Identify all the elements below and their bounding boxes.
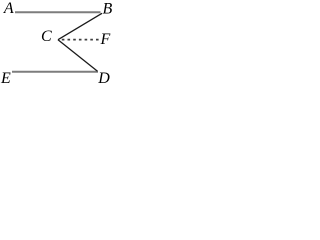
wire dashed CF <box>62 39 100 41</box>
wire line ED (bottom horizontal) <box>12 71 98 73</box>
wire segment BC (diagonal) <box>58 13 102 39</box>
svg-text:E: E <box>0 70 11 83</box>
svg-text:A: A <box>3 0 14 17</box>
wire segment CD (diagonal) <box>58 40 98 72</box>
svg-text:B: B <box>103 0 113 17</box>
svg-text:C: C <box>41 28 52 45</box>
wire line AB (top horizontal) <box>15 11 101 13</box>
svg-text:F: F <box>100 31 111 48</box>
svg-text:D: D <box>97 70 110 83</box>
